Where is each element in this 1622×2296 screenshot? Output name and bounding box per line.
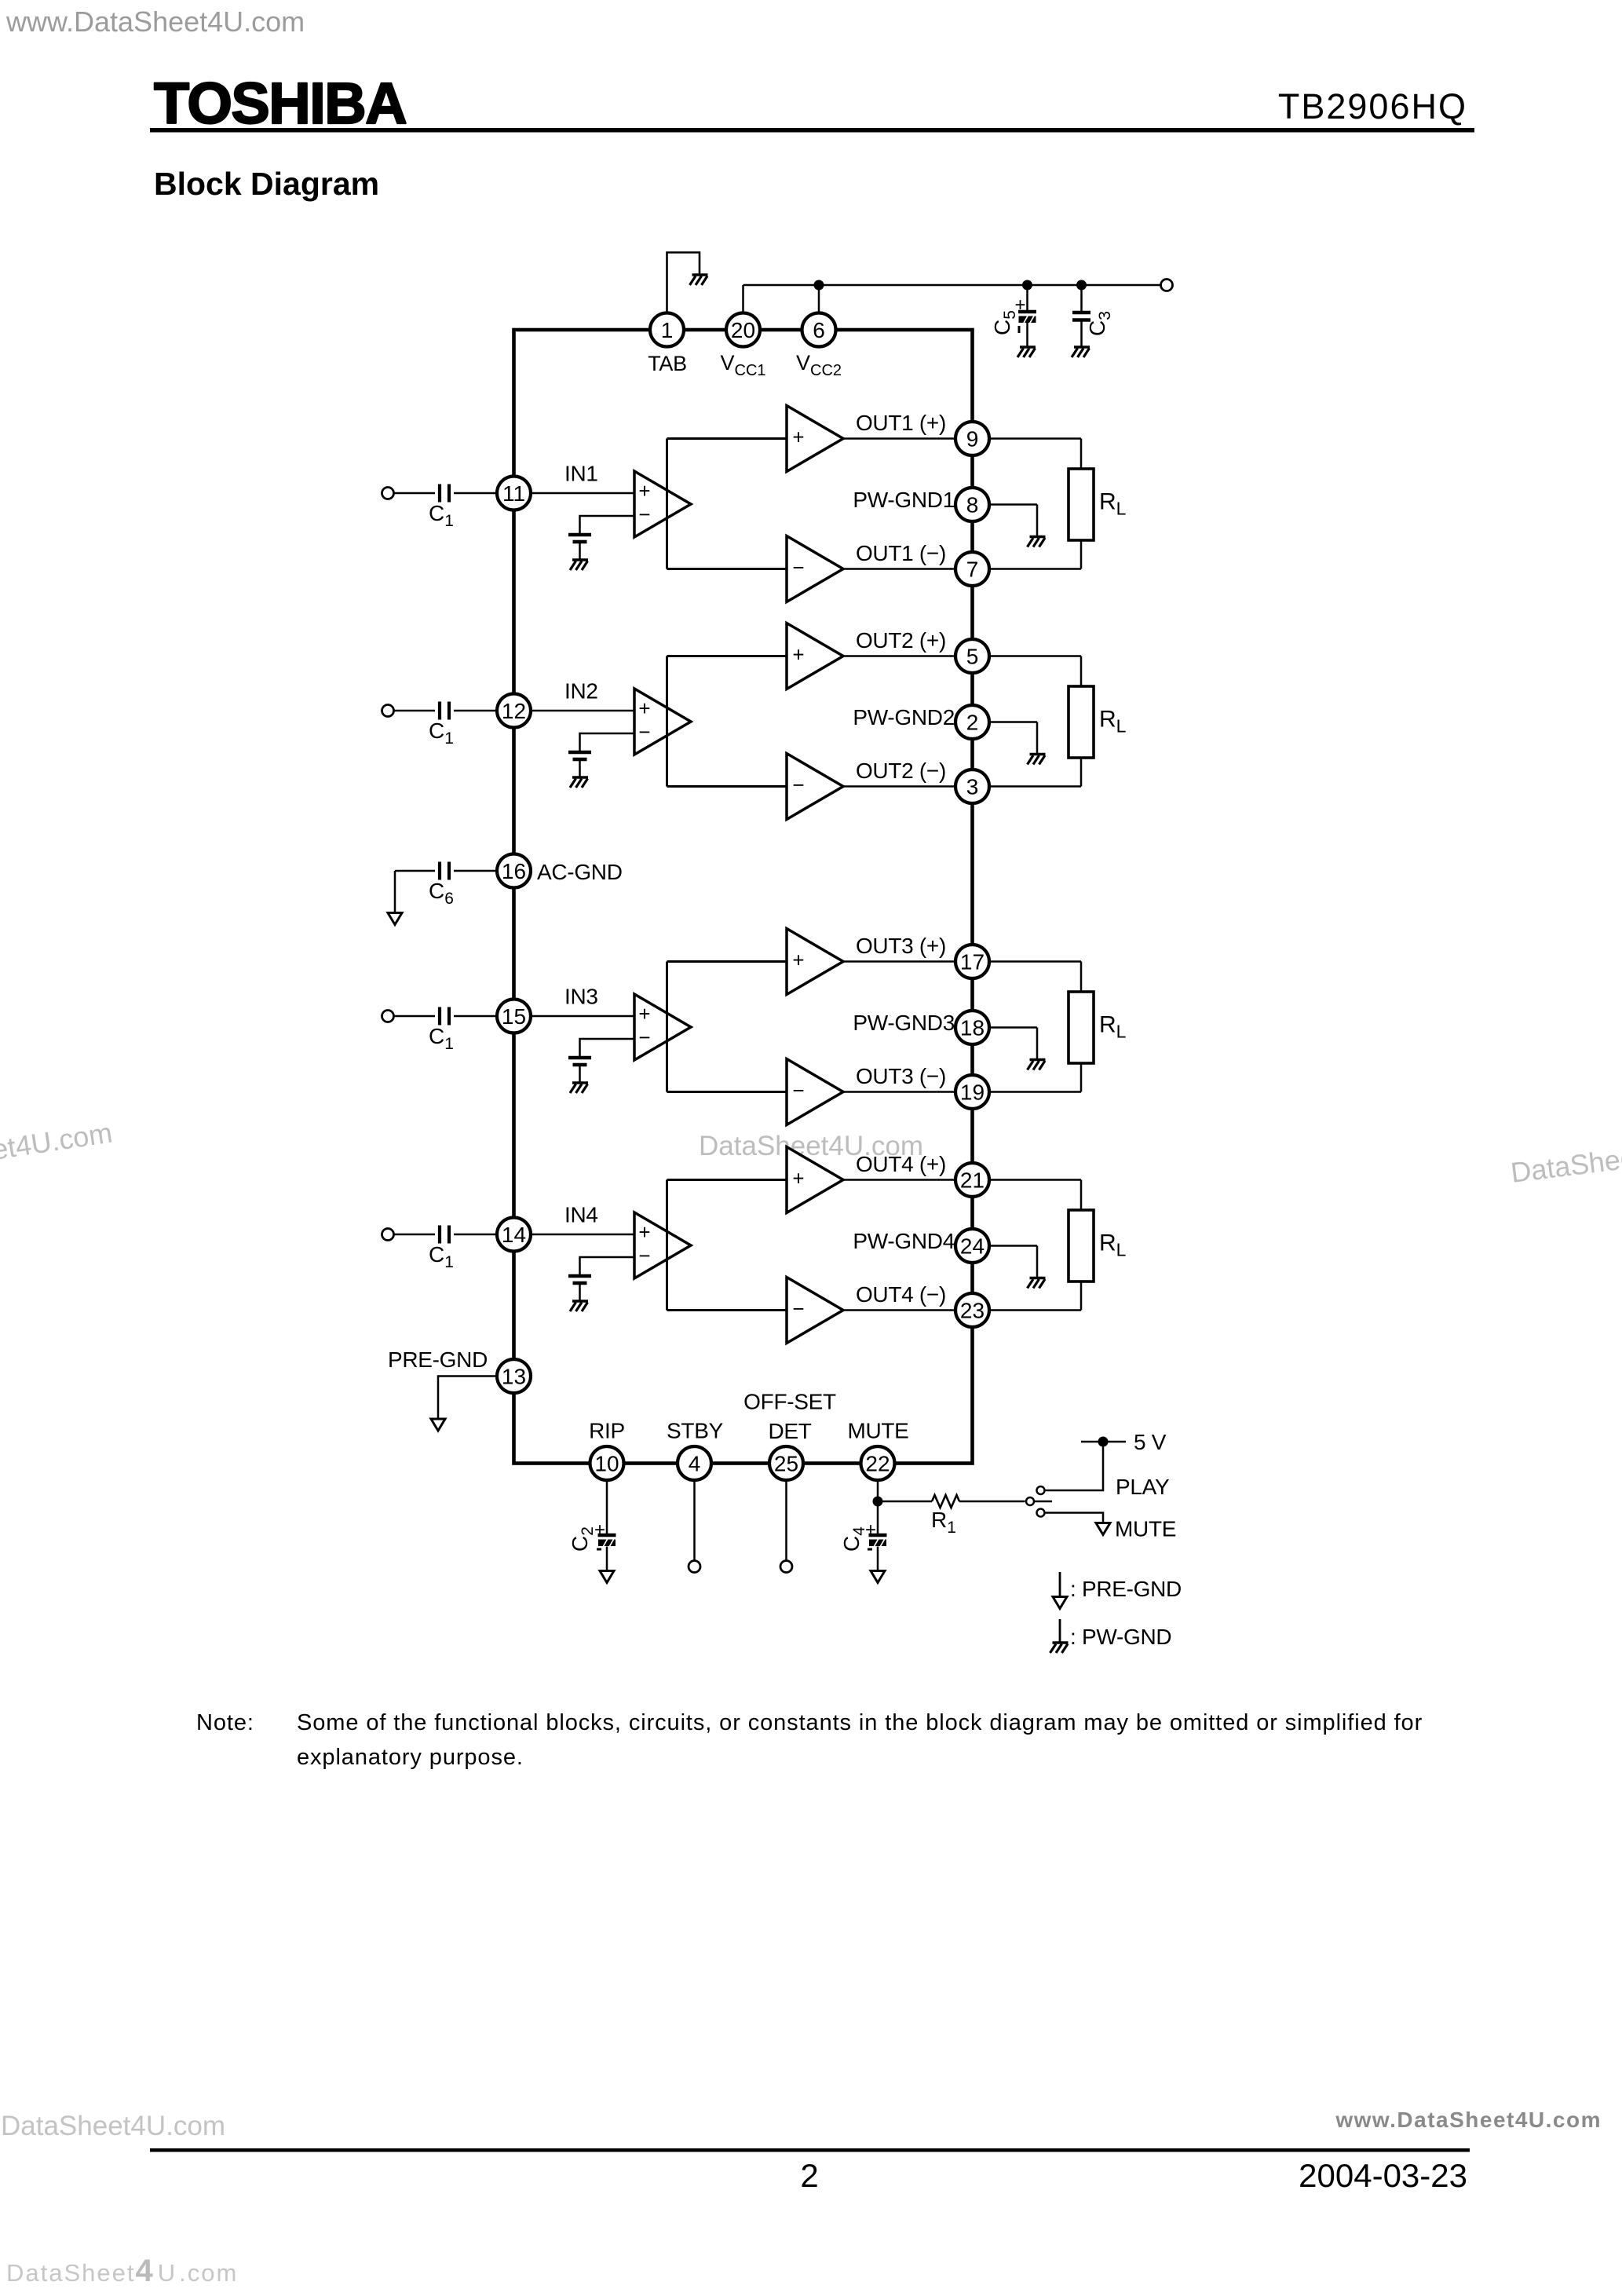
capacitor C3 xyxy=(1072,285,1114,357)
pin 15 IN3 xyxy=(497,1000,531,1033)
svg-text:DataSheet4U.com: DataSheet4U.com xyxy=(1,2111,225,2141)
svg-text:OUT3 (+): OUT3 (+) xyxy=(856,934,946,958)
capacitor C4 xyxy=(839,1501,887,1583)
wire PW-GND3 to ground xyxy=(853,1011,1045,1070)
svg-text:18: 18 xyxy=(960,1016,985,1040)
op-amp input amplifier channel 4 xyxy=(634,1212,691,1278)
svg-text:19: 19 xyxy=(960,1080,985,1105)
svg-text:TAB: TAB xyxy=(648,352,687,375)
svg-text:IN3: IN3 xyxy=(564,985,598,1009)
resistor RL (channel 2) xyxy=(989,656,1127,787)
svg-text:PW-GND1: PW-GND1 xyxy=(853,488,955,512)
svg-text:7: 7 xyxy=(966,558,979,582)
capacitor C1 (channel 4) xyxy=(394,1226,498,1272)
svg-text:+: + xyxy=(792,949,804,972)
svg-text:RIP: RIP xyxy=(589,1419,625,1443)
svg-text:OUT1 (+): OUT1 (+) xyxy=(856,411,946,435)
wire OUT2(+) output xyxy=(843,628,955,656)
svg-text:www.DataSheet4U.com: www.DataSheet4U.com xyxy=(1335,2108,1602,2132)
svg-text:+: + xyxy=(792,1167,804,1190)
svg-text:Block Diagram: Block Diagram xyxy=(154,166,379,202)
wire IN3 to input amp xyxy=(531,985,634,1017)
pin 10 RIP xyxy=(589,1419,625,1481)
svg-text:IN4: IN4 xyxy=(564,1203,598,1227)
svg-text:OUT4 (−): OUT4 (−) xyxy=(856,1282,946,1307)
node mute junction xyxy=(873,1497,883,1507)
op-amp OUT1(+) driver xyxy=(787,406,843,472)
svg-text:12: 12 xyxy=(502,699,526,723)
svg-text:+: + xyxy=(792,426,804,449)
capacitor feedback to ground (channel 2) xyxy=(568,733,634,788)
legend PW-GND symbol xyxy=(1050,1619,1172,1653)
capacitor C1 (channel 3) xyxy=(394,1007,498,1054)
svg-text:−: − xyxy=(792,556,804,579)
switch pole contact xyxy=(1026,1497,1052,1505)
pin 20 VCC1 xyxy=(720,313,765,380)
capacitor C2 xyxy=(568,1480,616,1583)
svg-text:16: 16 xyxy=(502,859,526,883)
svg-text:6: 6 xyxy=(813,318,825,342)
svg-text:5: 5 xyxy=(966,645,979,669)
svg-text:8: 8 xyxy=(966,493,979,517)
wire OUT1(-) output xyxy=(843,541,955,569)
svg-text:OUT2 (−): OUT2 (−) xyxy=(856,759,946,783)
svg-text:+: + xyxy=(638,1002,650,1026)
pin 8 PW-GND1 xyxy=(955,488,989,521)
capacitor C1 (channel 2) xyxy=(394,702,498,748)
svg-text:3: 3 xyxy=(966,775,979,799)
svg-text:22: 22 xyxy=(865,1452,890,1476)
op-amp OUT4(-) driver xyxy=(787,1278,843,1344)
node junction at C5 xyxy=(1022,280,1032,291)
wire interconnect channel 4 xyxy=(667,1180,787,1311)
wire IN1 to input amp xyxy=(531,462,634,494)
pin 22 MUTE xyxy=(847,1419,908,1481)
node junction above pin 6 xyxy=(814,280,824,291)
svg-text:−: − xyxy=(792,1079,804,1102)
pin 17 OUT3(+) xyxy=(955,945,989,978)
pin 9 OUT1(+) xyxy=(955,422,989,455)
terminal input IN4 xyxy=(382,1229,394,1241)
pin 25 OFF-SET DET xyxy=(743,1390,836,1481)
op-amp OUT2(+) driver xyxy=(787,623,843,689)
svg-text:DataSheet4U.com: DataSheet4U.com xyxy=(6,2254,238,2288)
wire PW-GND1 to ground xyxy=(853,488,1045,547)
wire OUT4(-) output xyxy=(843,1282,955,1311)
pin 5 OUT2(+) xyxy=(955,639,989,673)
svg-text:PLAY: PLAY xyxy=(1116,1475,1170,1499)
svg-text:STBY: STBY xyxy=(667,1419,724,1443)
terminal VCC input xyxy=(1161,280,1173,291)
wire interconnect channel 2 xyxy=(667,656,787,787)
svg-text:: PRE-GND: : PRE-GND xyxy=(1070,1577,1182,1601)
pin 18 PW-GND3 xyxy=(955,1011,989,1044)
pin 1 TAB xyxy=(648,313,687,376)
ground (TAB) wire and PW-GND symbol xyxy=(667,253,708,313)
svg-text:PW-GND3: PW-GND3 xyxy=(853,1011,955,1035)
resistor R1 xyxy=(882,1495,1025,1537)
wire PW-GND4 to ground xyxy=(853,1229,1045,1289)
pin 14 IN4 xyxy=(497,1218,531,1252)
svg-text:Note:: Note: xyxy=(196,1710,254,1735)
op-amp input amplifier channel 1 xyxy=(634,471,691,537)
capacitor C5 xyxy=(990,285,1036,357)
op-amp OUT3(+) driver xyxy=(787,929,843,995)
wire IN2 to input amp xyxy=(531,679,634,711)
capacitor C1 (channel 1) xyxy=(394,484,498,531)
svg-text:−: − xyxy=(638,503,650,526)
pin 23 OUT4(-) xyxy=(955,1293,989,1327)
resistor RL (channel 3) xyxy=(989,962,1127,1092)
wire VCC supply rail xyxy=(743,285,1161,313)
header rule xyxy=(150,128,1474,133)
pin 2 PW-GND2 xyxy=(955,705,989,739)
op-amp OUT2(-) driver xyxy=(787,754,843,820)
svg-text:MUTE: MUTE xyxy=(1115,1517,1176,1541)
svg-text:24: 24 xyxy=(960,1234,985,1259)
pin 3 OUT2(-) xyxy=(955,770,989,803)
pin 19 OUT3(-) xyxy=(955,1075,989,1109)
svg-text:OFF-SET: OFF-SET xyxy=(743,1390,836,1414)
capacitor C6 xyxy=(388,862,497,925)
op-amp OUT4(+) driver xyxy=(787,1147,843,1213)
note text xyxy=(196,1710,1423,1770)
svg-text:+: + xyxy=(638,1220,650,1244)
svg-text:explanatory purpose.: explanatory purpose. xyxy=(297,1745,524,1770)
footer rule xyxy=(150,2148,1470,2152)
svg-text:−: − xyxy=(638,720,650,744)
svg-text:PW-GND2: PW-GND2 xyxy=(853,705,955,729)
svg-text:2004-03-23: 2004-03-23 xyxy=(1299,2157,1467,2194)
pin 4 STBY xyxy=(667,1419,724,1481)
op-amp OUT1(-) driver xyxy=(787,536,843,602)
svg-text:9: 9 xyxy=(966,427,979,452)
wire interconnect channel 1 xyxy=(667,439,787,569)
capacitor feedback to ground (channel 4) xyxy=(568,1257,634,1311)
svg-text:1: 1 xyxy=(661,318,674,342)
capacitor feedback to ground (channel 1) xyxy=(568,516,634,570)
pin 13 PRE-GND wire and symbol xyxy=(388,1347,497,1431)
terminal input IN2 xyxy=(382,705,394,717)
pin 24 PW-GND4 xyxy=(955,1229,989,1263)
svg-text:OUT1 (−): OUT1 (−) xyxy=(856,541,946,565)
svg-text:TB2906HQ: TB2906HQ xyxy=(1278,86,1467,126)
svg-text:DET: DET xyxy=(768,1419,811,1443)
svg-text:PRE-GND: PRE-GND xyxy=(388,1347,488,1372)
svg-text:−: − xyxy=(638,1244,650,1267)
wire OUT4(+) output xyxy=(843,1152,955,1180)
pin 6 VCC2 xyxy=(796,313,842,380)
wire pin 22 to mute node xyxy=(877,1480,879,1501)
svg-text:−: − xyxy=(792,773,804,797)
op-amp OUT3(-) driver xyxy=(787,1059,843,1125)
svg-text:IN2: IN2 xyxy=(564,679,598,704)
svg-text:AC-GND: AC-GND xyxy=(537,860,623,884)
svg-text:13: 13 xyxy=(502,1365,526,1389)
pin 21 OUT4(+) xyxy=(955,1163,989,1197)
switch MUTE throw xyxy=(1037,1509,1177,1541)
node junction at C3 xyxy=(1076,280,1087,291)
svg-text:IN1: IN1 xyxy=(564,462,598,486)
resistor RL (channel 1) xyxy=(989,439,1127,569)
pin 13 PRE-GND xyxy=(497,1359,531,1393)
pin 16 AC-GND xyxy=(497,854,623,888)
svg-text:4: 4 xyxy=(689,1452,701,1476)
wire OUT3(+) output xyxy=(843,934,955,962)
svg-text:17: 17 xyxy=(960,950,985,974)
switch PLAY throw xyxy=(1037,1447,1170,1500)
svg-text:10: 10 xyxy=(594,1452,619,1476)
pin 11 IN1 xyxy=(497,477,531,510)
svg-text:2: 2 xyxy=(966,711,979,735)
wire IN4 to input amp xyxy=(531,1203,634,1235)
svg-text:15: 15 xyxy=(502,1004,526,1029)
svg-text:14: 14 xyxy=(502,1223,526,1247)
wire OUT3(-) output xyxy=(843,1064,955,1092)
svg-text:www.DataSheet4U.com: www.DataSheet4U.com xyxy=(5,5,305,38)
svg-text:PW-GND4: PW-GND4 xyxy=(853,1229,955,1253)
svg-text:23: 23 xyxy=(960,1299,985,1323)
capacitor feedback to ground (channel 3) xyxy=(568,1039,634,1093)
terminal STBY xyxy=(689,1480,700,1573)
svg-text:20: 20 xyxy=(731,318,755,342)
svg-text:−: − xyxy=(792,1297,804,1321)
svg-text:TOSHIBA: TOSHIBA xyxy=(154,71,406,136)
svg-text:Some of the functional blocks,: Some of the functional blocks, circuits,… xyxy=(297,1710,1423,1735)
IC block TB2906HQ outline xyxy=(514,330,973,1464)
svg-text:+: + xyxy=(638,696,650,720)
legend PRE-GND symbol xyxy=(1053,1572,1182,1609)
terminal input IN3 xyxy=(382,1011,394,1022)
wire interconnect channel 3 xyxy=(667,962,787,1092)
wire OUT2(-) output xyxy=(843,759,955,787)
svg-text:OUT3 (−): OUT3 (−) xyxy=(856,1064,946,1088)
terminal OFF-SET DET xyxy=(780,1480,792,1573)
svg-text:11: 11 xyxy=(502,481,525,506)
svg-text:OUT4 (+): OUT4 (+) xyxy=(856,1152,946,1176)
svg-text:+: + xyxy=(792,643,804,667)
svg-text:: PW-GND: : PW-GND xyxy=(1070,1625,1171,1649)
svg-text:+: + xyxy=(638,479,650,503)
svg-text:5 V: 5 V xyxy=(1134,1430,1167,1454)
svg-text:OUT2 (+): OUT2 (+) xyxy=(856,628,946,653)
pin 12 IN2 xyxy=(497,694,531,728)
svg-text:2: 2 xyxy=(800,2157,818,2194)
terminal input IN1 xyxy=(382,488,394,499)
pin 7 OUT1(-) xyxy=(955,552,989,586)
svg-text:21: 21 xyxy=(960,1168,985,1193)
wire OUT1(+) output xyxy=(843,411,955,439)
svg-text:MUTE: MUTE xyxy=(847,1419,908,1443)
svg-text:25: 25 xyxy=(774,1452,798,1476)
op-amp input amplifier channel 3 xyxy=(634,994,691,1060)
svg-text:−: − xyxy=(638,1026,650,1049)
op-amp input amplifier channel 2 xyxy=(634,689,691,755)
resistor RL (channel 4) xyxy=(989,1180,1127,1311)
node 5V supply xyxy=(1081,1430,1167,1454)
wire PW-GND2 to ground xyxy=(853,705,1045,765)
